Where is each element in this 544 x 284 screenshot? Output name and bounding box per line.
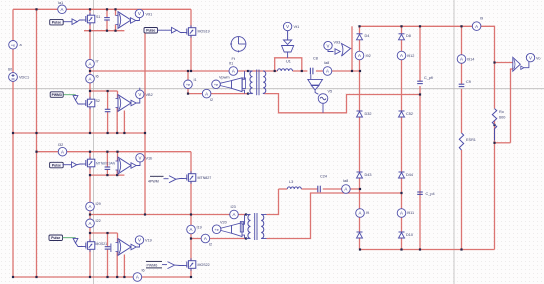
svg-text:I6: I6 [142,269,145,273]
junction (274.7,71) [274,70,276,72]
svg-text:I2: I2 [210,98,213,102]
wire bottom bus y277 [13,276,133,278]
junction (124.4,133) [123,132,125,134]
wire TL bottom bus y133 [13,132,145,134]
svg-text:4PWM: 4PWM [148,179,159,183]
wire top right bus y26.3 [360,25,473,27]
wire leg2 opamp drop1 [116,108,118,134]
junction (117.2,175.1) [116,174,118,176]
wire leg4 rail y233 [90,232,118,234]
junction (90,71) [89,70,91,72]
pill Pulse1 [50,19,72,25]
diode D32 [357,111,372,117]
junction (124.4,277) [123,276,125,278]
svg-text:D4: D4 [365,34,370,38]
svg-text:Ia8: Ia8 [343,179,348,183]
source Va [9,41,23,50]
wire MTN827 source [190,181,192,225]
junction (90,91) [89,90,91,92]
svg-text:I9: I9 [366,211,369,215]
wire meter stub lower x188 [187,89,189,94]
junction (191,214.5) [190,213,192,215]
resistor ESR1 [459,133,476,150]
svg-text:S1: S1 [96,15,100,19]
wire leg34 column seg2 [89,211,91,219]
wire MOS22 source seg [190,268,192,277]
svg-text:MTN8019AN: MTN8019AN [96,162,116,166]
junction (420,94.5) [419,93,421,95]
svg-text:D8: D8 [406,34,411,38]
svg-text:Ia8: Ia8 [324,61,329,65]
op-amp U1 [116,12,132,29]
wire top bus y9.3 [13,8,191,10]
source VDC1 [8,68,29,82]
wire MOS22 drain seg [190,234,192,261]
wire leg2 cap column top [107,91,109,109]
svg-text:60: 60 [8,68,12,72]
wire leg3 drain stub [89,152,91,160]
svg-text:PWM3: PWM3 [52,93,62,97]
junction (36.5,133) [35,132,37,134]
svg-text:C9: C9 [466,80,471,84]
wire bottom mid bus y214.5 [90,214,246,216]
ammeter I912 [397,51,414,60]
junction (360,71) [359,70,361,72]
diode D8 [399,34,411,40]
svg-text:I19: I19 [197,226,202,230]
wire lower rail y93.6 [188,93,248,95]
junction (107,9.3) [106,8,108,10]
wire leg3 feed rail y151.7 [37,151,59,153]
wire vertical x36.5 [36,9,38,277]
ammeter I19 [187,225,202,234]
svg-text:I22: I22 [96,219,101,223]
buffer U3 out [131,162,140,168]
wire xfmr1 bottom right and dip [265,94,421,113]
carrier stack mid trapezoid [308,74,323,94]
page guide vertical line left [93,0,95,284]
probe V19 [135,236,151,244]
svg-text:I23: I23 [231,205,236,209]
wire opamp feed y62.5 [495,62,513,64]
ammeter Ia8 mid [323,61,332,75]
mosfet M4 [83,157,116,169]
probe V92 [136,88,153,99]
wire mid bus y71 seg3 [316,70,323,72]
wire mid bus y71 [90,70,278,72]
resistor Ro [492,109,505,141]
pill PWM3 [50,92,75,98]
probe V91 [135,9,152,17]
wire LC output y189 [279,188,288,190]
diode C52 [399,111,413,117]
buffer gate2 [73,95,83,104]
junction (494.5,142.8) [493,142,495,144]
junction (461.5,249.5) [460,248,462,250]
source Vsin [318,90,332,113]
wire MTN827 drain [190,152,192,174]
carrier source stack top [282,40,294,58]
ammeter I911 [397,209,414,218]
wire left rail seg3 [12,81,14,277]
transformer TX2 [240,213,266,240]
wire mid bus y71 seg4 [332,70,360,72]
svg-text:Pulse: Pulse [52,164,61,168]
svg-text:V91: V91 [146,13,153,17]
page guide horizontal line [0,88,544,90]
svg-text:MOS19: MOS19 [198,30,210,34]
diode D4 [357,34,370,40]
junction (420,249.5) [419,248,421,250]
buffer U2 out [131,99,140,106]
wire C9 column x461.5 [461,26,463,54]
probe Vt1 [283,22,299,40]
wire leg4 opamp drop2 [123,255,125,278]
wire leg1 source stub [89,23,91,31]
junction (117.2,277) [116,276,118,278]
wire leg2 column mid [89,83,91,99]
svg-text:V19: V19 [145,239,152,243]
wire bottom lower rail y238.5 [191,238,246,240]
buffer gate3 [72,162,84,168]
wire rect column1 segs x359.5 [359,26,361,34]
capacitor C24 [318,175,327,193]
svg-text:MOS22: MOS22 [198,263,210,267]
svg-text:U1: U1 [286,60,291,64]
buffer gate MOS22 [168,262,185,269]
svg-text:V93: V93 [334,41,341,45]
buffer U4 out [131,244,140,250]
junction (36.5,151.7) [35,151,37,153]
wire leg4 source [89,249,91,277]
svg-text:I7: I7 [96,60,99,64]
wire leg1 opamp stub top [115,9,117,15]
svg-text:C_p4: C_p4 [426,192,435,196]
page guide vertical line right [453,0,455,284]
wire leg2 rail y91 [90,90,118,92]
svg-text:D10: D10 [406,233,413,237]
svg-text:I9: I9 [480,17,483,21]
ammeter It1 [229,62,238,76]
junction (145,133) [144,132,146,134]
junction (191,277) [190,276,192,278]
svg-text:I1: I1 [194,78,197,82]
mosfet S1 [83,13,100,25]
junction (401.5,193) [400,192,402,194]
wire leg4 cap column [107,233,109,246]
capacitor snubber leg1 [104,18,110,20]
wire leg3 opamp step [117,152,119,161]
wire meter stub upper x188 [187,71,189,80]
junction (360,249.5) [359,248,361,250]
wire rect column2 segs x401.5 [401,26,403,34]
junction (107.5,233) [106,232,108,234]
svg-text:Pulse: Pulse [52,21,61,25]
buffer gate1 [72,19,83,25]
junction (145,214.5) [144,213,146,215]
junction (36.5,277) [35,276,37,278]
junction (107.6,133) [107,132,109,134]
ammeter I22 [86,219,101,228]
wire y142.8 link [495,142,511,144]
junction (90,30.7) [89,30,91,32]
svg-text:Ro: Ro [499,110,504,114]
wire leg4 opamp step [117,233,119,243]
ammeter lower rail [202,89,213,102]
pill PWM5 [148,176,169,183]
pill Pulse3 [50,162,71,168]
wire leg1 cap stub top [106,9,108,17]
capacitor snubber leg3 [105,167,111,169]
junction (13,277) [12,276,14,278]
capacitor C_p4 [417,192,434,196]
wire leg2 source [89,107,91,133]
buffer gate MOS19 [172,27,185,33]
junction (494.5,125) [493,124,495,126]
wire leg3 source stub [89,167,91,175]
ammeter top right [472,17,483,31]
junction (117.2,133) [116,132,118,134]
ammeter Ia1 [58,1,67,14]
wire MOS19 drain [190,9,192,27]
svg-text:MOS21: MOS21 [96,242,108,246]
svg-text:ESR1: ESR1 [466,138,476,142]
wire left rail seg2 [12,49,14,73]
svg-text:Vo: Vo [536,57,540,61]
diode D45 [357,232,363,238]
capacitor snubber leg2 [105,109,111,111]
meter +e mid [184,78,197,89]
mosfet MOS19 [184,25,210,37]
junction (191,71) [190,70,192,72]
svg-text:VB2: VB2 [146,93,153,97]
svg-text:I92: I92 [366,54,371,58]
svg-text:C24: C24 [320,175,327,179]
wire leg1 cap stub bottom [106,20,108,31]
probe V1b [136,154,152,162]
op-amp Vo buffer [513,57,529,71]
ammeter Ia8 out [342,179,351,193]
ammeter I6b [86,74,99,83]
wire C_pfl column x420 [419,26,421,81]
svg-text:D32: D32 [365,112,372,116]
junction (90,9.3) [89,8,91,10]
wire left rail seg1 [12,9,14,40]
probe Vo [526,53,540,61]
junction (248,71) [247,70,249,72]
wire vertical x145 [144,33,146,215]
ammeter I9b [356,209,369,218]
junction (90,151.7) [89,151,91,153]
wire comparator V93 output [351,48,352,50]
svg-text:I911: I911 [407,211,414,215]
wire leg2 column upper [89,31,91,60]
mosfet MOS21 [83,239,107,251]
svg-text:I6: I6 [96,75,99,79]
capacitor C8 [310,57,317,75]
pill Pulse4 [49,235,76,241]
junction (107,30.7) [106,30,108,32]
junction (188,71) [187,70,189,72]
wire leg34 column seg3 [89,228,91,242]
pill PWM6 [146,261,167,268]
wire carrier box [275,58,302,71]
svg-text:C52: C52 [406,112,413,116]
svg-text:C_pfl: C_pfl [424,76,433,80]
svg-text:Pulse: Pulse [51,236,60,240]
junction (90,233) [89,232,91,234]
buffer U1 out [131,17,140,23]
ammeter I7 [86,59,99,68]
buffer gate MTN827 [169,176,184,183]
inductor L4 [278,60,293,72]
junction (90,133) [89,132,91,134]
svg-text:C8: C8 [313,57,318,61]
junction (90,175.1) [89,174,91,176]
buffer gate4 [73,238,83,247]
wire leg2 opamp step [117,91,119,99]
mosfet MOS22 [184,258,210,270]
wire leg4 opamp drop1 [116,252,118,278]
svg-text:Vpwm: Vpwm [219,76,230,80]
svg-text:L3: L3 [289,180,293,184]
junction (107.6,91) [107,90,109,92]
ammeter I914 [457,55,474,64]
capacitor C_pfl [417,76,433,84]
junction (461.5,26.3) [460,25,462,27]
probe V93 [324,41,340,52]
mosfet S2 [83,97,100,109]
diode D44 [399,172,413,178]
svg-text:I912: I912 [407,54,414,58]
ammeter rail2 [201,234,212,246]
svg-text:D44: D44 [406,173,413,177]
clock dial [230,37,246,61]
junction (90,214.5) [89,213,91,215]
svg-text:It1: It1 [229,62,233,66]
svg-text:600: 600 [499,116,505,120]
capacitor C9 [459,80,471,87]
wire opamp lower input drop [511,69,513,143]
junction (301.8,71) [301,70,303,72]
svg-text:I914: I914 [467,58,474,62]
junction (115.5,9.3) [114,8,116,10]
junction (246,214.5) [245,213,247,215]
pill Pulse2 [144,28,171,34]
ammeter I23 [230,205,239,219]
wire leg1 opamp stub bottom [115,25,117,31]
junction (401.5,26.3) [400,25,402,27]
junction (115.5,30.7) [114,30,116,32]
junction (401.5,249.5) [400,248,402,250]
junction (188,93.6) [187,93,189,95]
svg-text:MTN827: MTN827 [198,176,212,180]
comparator horn V93 [335,44,351,57]
junction (248,93.6) [247,93,249,95]
mosfet MTN827 [184,171,211,183]
svg-text:Ia1: Ia1 [58,1,63,5]
junction (494.5,62.5) [493,61,495,63]
svg-text:V1b: V1b [146,157,153,161]
junction (107.5,277) [106,276,108,278]
junction (360,189) [359,188,361,190]
svg-text:VDC1: VDC1 [19,76,29,80]
junction (107.4,151.7) [106,151,108,153]
junction (191,238.5) [190,237,192,239]
wire leg3 lower rail y175.1 [90,174,124,176]
wire resistor column bottom [494,121,496,250]
junction (420,26.3) [419,25,421,27]
svg-text:Vt1: Vt1 [294,25,300,29]
svg-text:D43: D43 [365,173,372,177]
wire leg3 cap column [106,152,108,167]
ammeter I92 [355,51,371,60]
wire leg3 opamp drop [116,170,118,175]
wire leg1 lower rail y30.7 [84,30,124,32]
wire xfmr2 bottom loop [267,193,402,239]
wire top right corner [481,26,495,108]
op-amp U4 [116,239,132,256]
op-amp U2 [116,95,132,112]
op-amp U3 [116,157,132,174]
capacitor snubber leg4 [105,244,111,253]
wire leg2 opamp drop2 [123,111,125,134]
junction (13,133) [12,132,14,134]
wire xfmr2 top riser [267,189,279,215]
source V20 comparator [212,215,244,239]
wire MOS19 source [190,35,192,71]
svg-text:V5: V5 [328,90,333,94]
svg-text:V20: V20 [220,221,227,225]
transformer TX1 [242,70,265,96]
junction (36.5,9.3) [35,8,37,10]
svg-text:I29: I29 [96,202,101,206]
ammeter I32 [58,143,67,156]
wire leg34 column seg1 [89,175,91,202]
junction (117.5,151.7) [116,151,118,153]
diode D43 [357,172,372,178]
svg-text:PWM6: PWM6 [147,263,158,267]
svg-text:Pulse: Pulse [146,29,155,33]
junction (352,71) [351,70,353,72]
wire bottom right bus y249.5 [360,249,495,251]
wire leg1 drain stub [89,9,91,15]
source Vpwm comparator [212,71,245,94]
diode D10 [399,232,413,238]
inductor L3 [287,180,301,189]
svg-text:I2: I2 [209,243,212,247]
ammeter bottom bus [133,269,145,282]
wire leg2 column between meters [89,68,91,74]
wire mid bus y71 seg2 [293,70,308,72]
svg-text:I32: I32 [58,143,63,147]
junction (246,238.5) [245,237,247,239]
ammeter I29 [86,202,101,211]
wire leg2 cap column bottom [107,112,109,133]
svg-text:S2: S2 [96,99,100,103]
junction (90,277) [89,276,91,278]
junction (359.5,26.3) [358,25,360,27]
junction (107.4,175.1) [106,174,108,176]
wire bus corner drop x352 [351,26,353,71]
